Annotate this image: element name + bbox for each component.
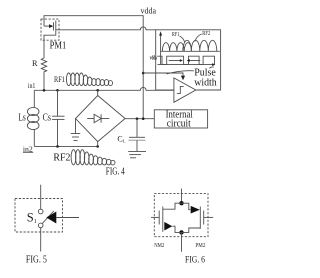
junction dot vdda-comparator <box>142 72 145 75</box>
resistor R <box>41 58 46 90</box>
wire in2 horizontal <box>34 145 97 147</box>
label C1 <box>117 134 125 143</box>
junction dot in1-R <box>43 89 46 92</box>
svg-text:S1: S1 <box>27 211 37 225</box>
svg-text:FIG. 5: FIG. 5 <box>26 254 47 265</box>
label PM2 <box>195 242 205 249</box>
wire vdda rail top <box>44 16 143 119</box>
capacitor Cs <box>52 90 65 146</box>
diode bridge <box>76 90 126 146</box>
transistor NM2 <box>151 203 182 232</box>
junction dot top <box>179 201 183 205</box>
wire S1 right <box>56 217 79 219</box>
switch S1 dashed box <box>15 199 63 233</box>
label vdda small <box>150 54 157 61</box>
pulse width arrow left <box>187 59 201 62</box>
svg-text:vdda: vdda <box>150 54 157 61</box>
wire bottom <box>181 232 183 251</box>
label S1 <box>27 211 37 225</box>
label FIG. 5 <box>26 254 47 265</box>
label Pulse width <box>194 66 217 88</box>
ground under C1 <box>128 151 146 157</box>
svg-text:R: R <box>32 59 38 68</box>
transmission gate dashed box <box>154 194 208 237</box>
transistor PM2 <box>182 203 214 232</box>
svg-text:PM1: PM1 <box>50 40 67 52</box>
waveform x-axis <box>158 63 216 66</box>
wire bridge to internal circuit <box>125 118 154 120</box>
arrowhead into comparator <box>181 76 185 81</box>
svg-text:CL: CL <box>117 134 125 143</box>
svg-text:RF2: RF2 <box>53 153 70 164</box>
leader tick over e <box>209 67 214 68</box>
wire comparator output <box>196 89 221 91</box>
leader curve from Pulse to wire <box>167 71 194 74</box>
label RF2 in box <box>195 31 211 42</box>
node in1 label <box>28 82 36 90</box>
junction dot vdda-branch <box>142 117 145 120</box>
svg-text:in1: in1 <box>28 82 36 90</box>
label FIG. 4 <box>106 167 125 178</box>
junction dot in2-bridge <box>96 145 99 148</box>
junction dot in1-Cs <box>56 89 59 92</box>
svg-text:RF2: RF2 <box>202 31 210 37</box>
label R <box>32 59 38 68</box>
label FIG. 6 <box>185 255 205 265</box>
RF2 signal coil squiggle <box>71 150 115 165</box>
diode inside bridge <box>87 114 109 122</box>
inductor Ls <box>27 90 39 146</box>
wire vdda to comparator top <box>143 73 183 76</box>
RF2 humps waveform <box>183 40 217 51</box>
junction dot C1 <box>136 117 139 120</box>
pulse width arrow right <box>169 59 183 62</box>
internal circuit box <box>154 110 207 130</box>
label Ls <box>18 113 25 124</box>
svg-text:Cs: Cs <box>43 113 51 124</box>
svg-text:NM2: NM2 <box>154 242 164 249</box>
switch S1 <box>38 209 56 228</box>
svg-text:FIG. 6: FIG. 6 <box>185 255 205 265</box>
RF1 signal coil squiggle <box>66 73 112 86</box>
waveform y-axis <box>159 31 162 64</box>
wire S1 bottom <box>40 228 42 252</box>
label PM1 <box>50 40 67 52</box>
svg-text:Ls: Ls <box>18 113 25 124</box>
junction dot in2-Cs <box>56 145 59 148</box>
label RF1 <box>54 75 65 84</box>
svg-text:vdda: vdda <box>141 7 157 16</box>
label RF2 <box>53 153 70 164</box>
junction dot in1-bridge <box>96 89 99 92</box>
svg-text:PM2: PM2 <box>195 242 205 249</box>
svg-text:width: width <box>194 76 217 88</box>
transistor PM1 <box>41 19 59 58</box>
label RF1 in box <box>172 32 185 42</box>
label Cs <box>43 113 51 124</box>
wire PM1 source to waveform box (hop over vdda line) <box>56 27 156 30</box>
pulse square wave <box>157 56 214 64</box>
wire S1 top <box>40 185 42 210</box>
comparator U1 <box>174 78 196 102</box>
junction dot bottom <box>179 230 183 234</box>
waveform inset box <box>156 30 221 90</box>
svg-text:FIG. 4: FIG. 4 <box>106 167 125 178</box>
wire top <box>181 189 183 204</box>
wire in1 horizontal (hop over vdda line) <box>34 87 174 90</box>
node in2 label <box>23 145 33 153</box>
svg-text:circuit: circuit <box>167 118 191 129</box>
svg-text:RF1: RF1 <box>172 32 180 38</box>
waveform baseline <box>161 50 220 52</box>
svg-text:RF1: RF1 <box>54 75 65 84</box>
node vdda label <box>141 7 157 16</box>
RF1 humps waveform <box>162 43 191 52</box>
label NM2 <box>154 242 164 249</box>
ground at bridge left <box>71 119 80 141</box>
capacitor C1 <box>129 119 146 152</box>
